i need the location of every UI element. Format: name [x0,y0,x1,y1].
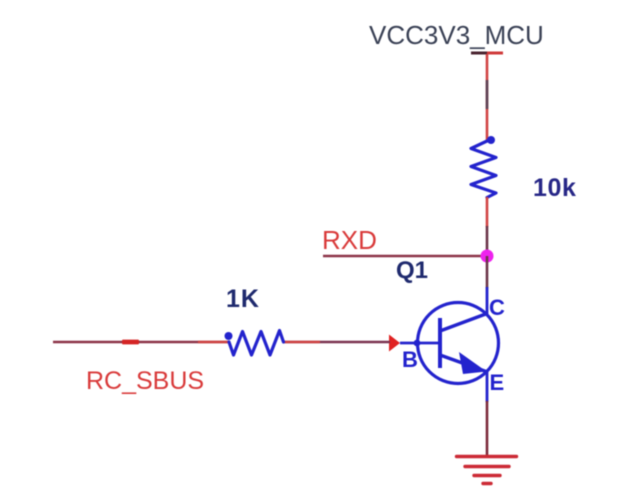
wire: emitter stub down to ground [486,401,489,456]
wire: RC_SBUS horizontal left segment [53,341,229,343]
pin-1 dot of resistor 1K [225,332,233,340]
transistor Q1 (NPN) [396,257,505,402]
wire: junction down to collector stub [486,256,489,288]
collector line [440,314,487,332]
transistor body circle [418,303,499,384]
wire: VCC bar down to resistor R1 top [486,54,489,142]
base pin dot [414,340,421,347]
emitter arrow head [459,352,487,374]
wire tick (bright red) [122,340,139,345]
svg-text:RC_SBUS: RC_SBUS [86,367,204,395]
emitter line [440,355,486,372]
power symbol VCC3V3_MCU bar [471,52,503,55]
wire (bright segment near resistor) [198,341,229,343]
svg-text:RXD: RXD [322,225,377,255]
input arrow on base wire [389,335,400,352]
svg-text:C: C [489,295,505,320]
svg-text:B: B [402,347,418,372]
svg-text:E: E [490,370,505,395]
svg-text:VCC3V3_MCU: VCC3V3_MCU [369,20,544,50]
svg-text:10k: 10k [533,174,577,202]
svg-text:Q1: Q1 [396,257,428,284]
collector stub wire (blue) [486,287,489,315]
wire: resistor bottom to RXD junction [486,197,489,227]
emitter stub wire (blue) [486,371,489,402]
wire (dark overlap segment) [486,226,489,253]
base pin wire (blue) [400,342,440,345]
ground [457,457,517,484]
resistor 1K (horizontal) [229,331,284,356]
resistor R1 10k (vertical) [471,141,496,198]
wire RXD horizontal [323,255,487,257]
svg-text:1K: 1K [226,285,260,313]
junction node (RXD / collector) [481,250,494,263]
pin-1 dot of resistor 10k [487,136,495,144]
base bar [438,318,442,368]
wire: resistor 1K right to arrow [283,341,390,343]
